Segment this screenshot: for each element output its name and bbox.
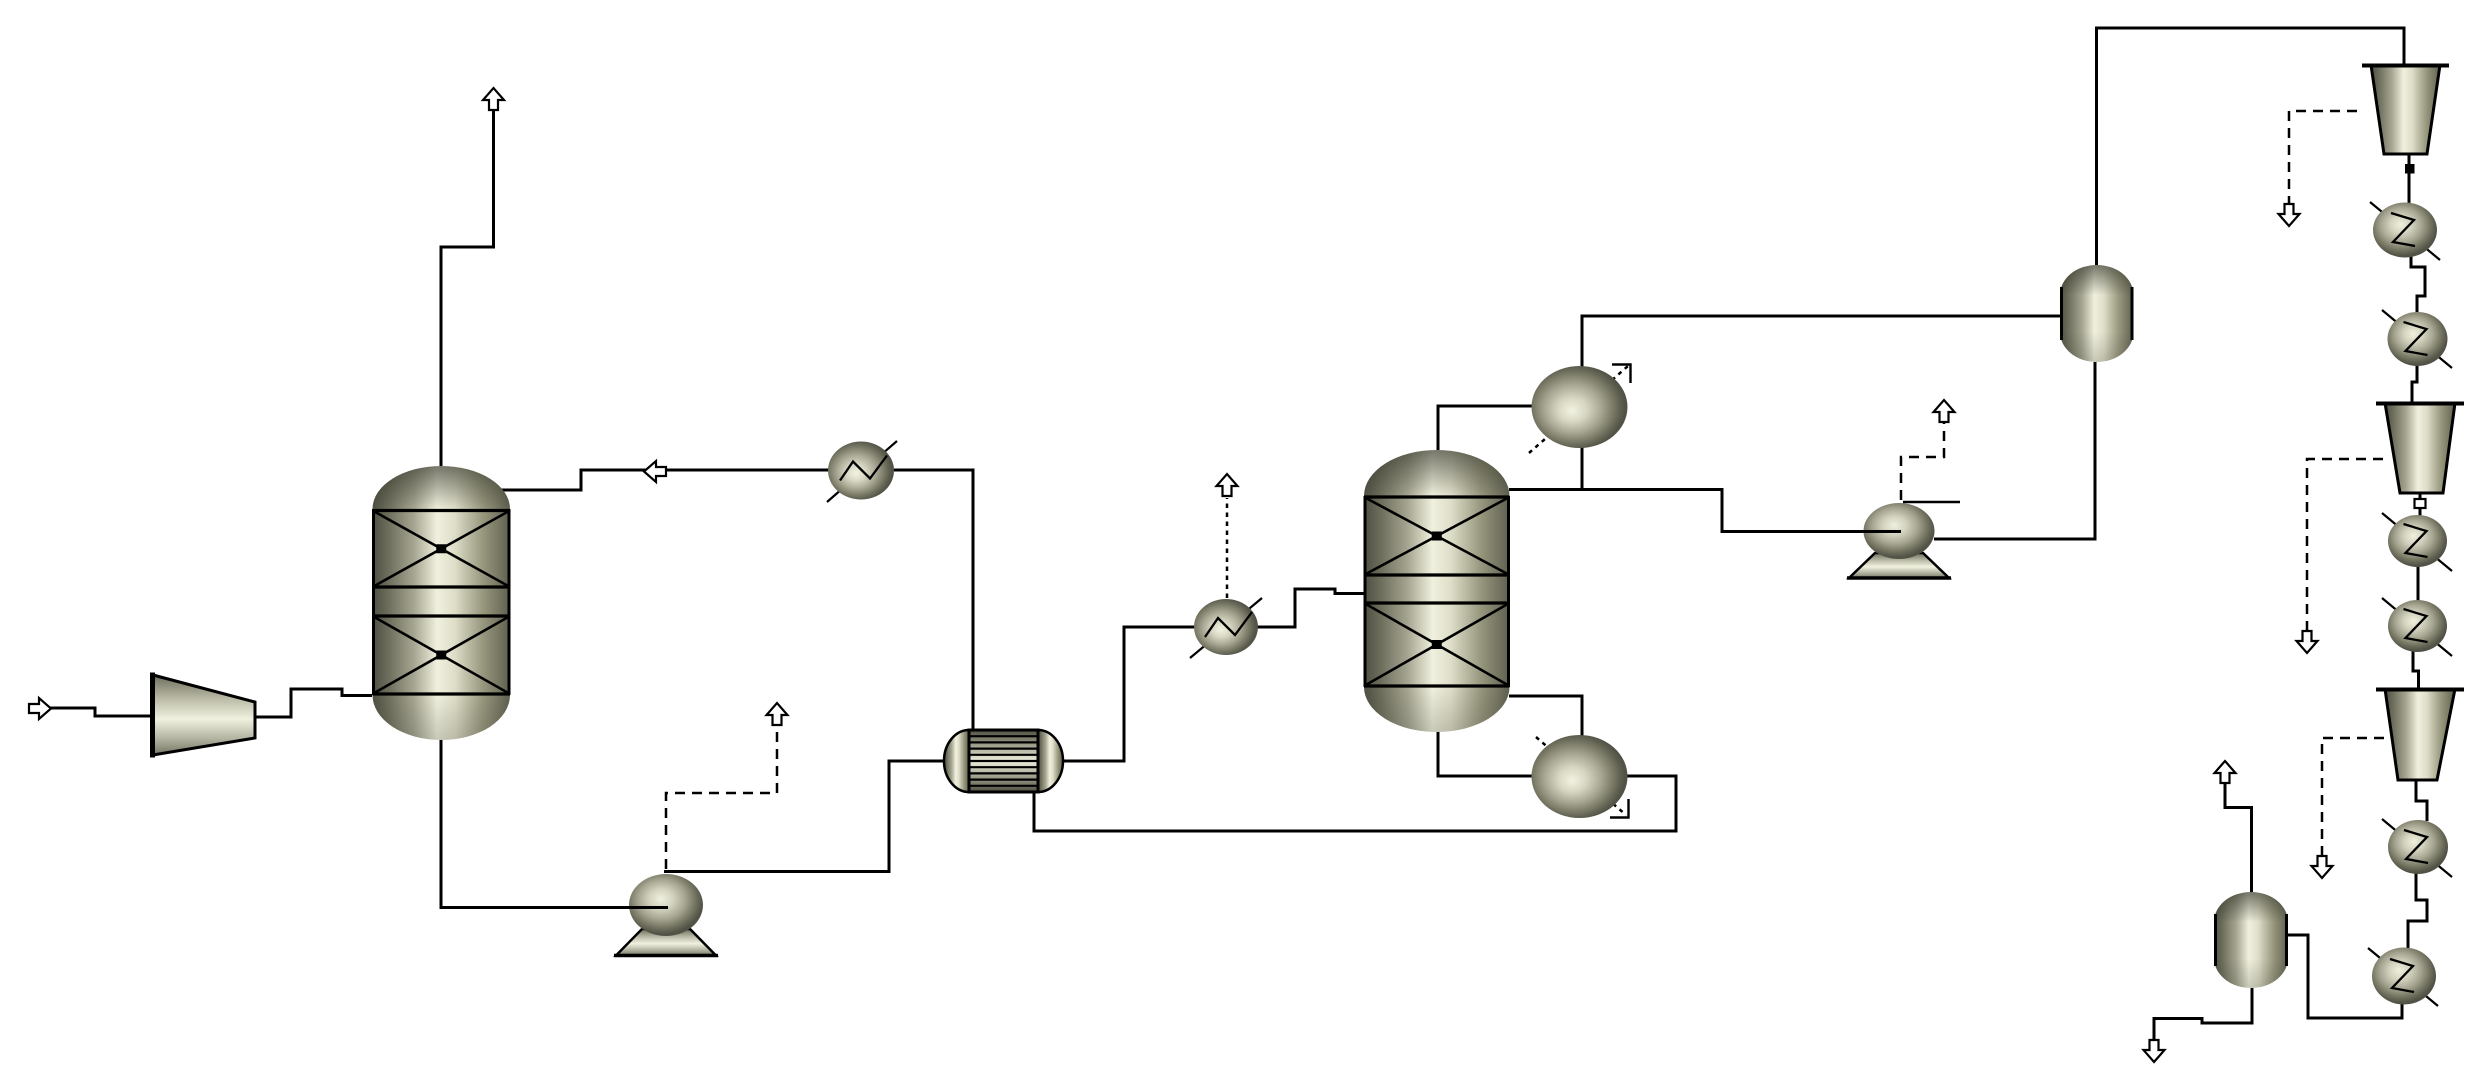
- compressor K3: [2376, 689, 2464, 780]
- wire T2 distillate to pump P2: [1509, 490, 1866, 532]
- wire E5 to E6: [2417, 566, 2420, 601]
- shell-and-tube exchanger X1: [944, 730, 1063, 792]
- wire E8 cooler diagonal: [2368, 948, 2438, 1006]
- wire E7 cooler diagonal: [2382, 819, 2452, 877]
- wire T2 lower side outlet down to reboiler top: [1509, 696, 1582, 737]
- cooler E8: [2372, 948, 2436, 1005]
- V2 liquid product arrow: [2144, 1040, 2165, 1062]
- wire T1 overhead up to vent arrow: [441, 110, 494, 466]
- wire E2 energy stream dotted: [1226, 498, 1229, 598]
- wire K1 outlet to cooler E3: [2408, 154, 2411, 204]
- wire V1 top to compressor K1: [2097, 28, 2405, 265]
- surge vessel V1: [2060, 265, 2134, 362]
- vent stream arrow top left: [483, 88, 504, 110]
- wire T1 bottoms down to pump P1: [441, 738, 632, 908]
- heater E2: [1194, 599, 1258, 655]
- cooler E5: [2388, 515, 2447, 567]
- wire K1 work stream dashed: [2289, 111, 2362, 206]
- wire E4 to compressor K2 jog: [2412, 364, 2417, 404]
- wire E2 heater diagonal: [1190, 598, 1262, 658]
- cooler E3: [2373, 203, 2437, 258]
- feed stream arrow: [29, 698, 51, 719]
- wire K2 outlet to cooler E5: [2419, 493, 2422, 516]
- wire E6 to compressor K3 jog: [2413, 651, 2419, 690]
- K1 work arrow: [2279, 204, 2300, 226]
- E2 energy arrow: [1217, 474, 1238, 496]
- wire E3 to E4 jog: [2411, 256, 2425, 312]
- wire K3 work stream dashed: [2322, 738, 2384, 856]
- compressor K2: [2376, 403, 2464, 493]
- wire E3 cooler diagonal: [2370, 202, 2440, 260]
- wire feed to compressor C1: [50, 708, 153, 716]
- pump P1: [600, 874, 718, 956]
- flash drum V2: [2214, 892, 2288, 988]
- compressor C1: [153, 673, 256, 758]
- K3 work arrow: [2312, 856, 2333, 878]
- wire P2 work stream dashed: [1901, 422, 1944, 500]
- packed column T1: [373, 466, 511, 740]
- P1 work arrow: [767, 703, 788, 725]
- wire E6 cooler diagonal: [2382, 598, 2452, 656]
- K2 work arrow: [2297, 631, 2318, 653]
- wire condenser bottom tee: [1581, 446, 1584, 490]
- wire V2 liquid to bottoms arrow: [2154, 988, 2252, 1040]
- cooler E4: [2388, 312, 2448, 366]
- recycle stream arrow on line: [644, 461, 666, 482]
- wire condenser outlet up to vessel V1: [1582, 316, 2060, 368]
- P2 work arrow: [1934, 400, 1955, 422]
- wire T2 overhead to condenser: [1438, 406, 1532, 450]
- wire C1 outlet to column T1 feed: [255, 689, 372, 717]
- wire condenser dashed diagonal: [1529, 366, 1628, 453]
- wire E7 to E8 jog: [2408, 872, 2427, 948]
- wire E5 cooler diagonal: [2382, 513, 2452, 571]
- wire T1 side draw to heater E1 and down to heatx: [500, 470, 973, 730]
- wire K3 outlet to cooler E7: [2416, 780, 2427, 821]
- wire E8 outlet to flash drum V2: [2288, 935, 2402, 1018]
- wire P1 work stream dashed: [666, 725, 777, 869]
- wire T2 bottoms to reboiler: [1438, 732, 1532, 776]
- heater E1: [828, 442, 894, 500]
- packed column T2: [1364, 450, 1510, 732]
- coupling square below K2: [2415, 499, 2426, 508]
- condenser CD1: [1532, 365, 1631, 449]
- reboiler RB1: [1532, 735, 1629, 818]
- wire V2 vapor to product arrow: [2225, 783, 2252, 892]
- junction square below K1: [2405, 164, 2415, 174]
- V2 vapor product arrow: [2215, 761, 2236, 783]
- wire X1 shell outlet to heater E2 to column T2 feed: [1062, 589, 1364, 761]
- compressor K1: [2362, 65, 2449, 154]
- cooler E7: [2388, 820, 2448, 874]
- wire P2 discharge up to V1 bottom: [1934, 362, 2095, 539]
- wire X1 tube outlet to reboiler return: [1034, 776, 1676, 831]
- wire K2 work stream dashed: [2307, 459, 2388, 631]
- cooler E6: [2388, 600, 2447, 652]
- wire P1 discharge up to heatx X1: [664, 761, 945, 872]
- wire E1 heater diagonal: [827, 441, 897, 502]
- wire E4 cooler diagonal: [2382, 310, 2452, 368]
- wire reboiler dashed diagonal: [1536, 737, 1626, 815]
- pump P2: [1830, 502, 1960, 578]
